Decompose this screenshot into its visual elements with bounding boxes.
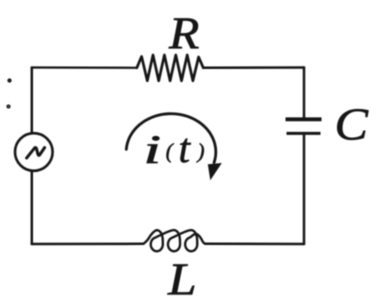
svg-text:i: i <box>143 127 161 172</box>
wire bottom right segment <box>205 243 304 246</box>
scan speck left margin upper <box>9 80 11 82</box>
inductor L coil <box>144 230 206 251</box>
wire left lower <box>31 171 34 244</box>
svg-text:C: C <box>335 99 369 150</box>
svg-text:): ) <box>197 139 205 163</box>
wire right upper <box>303 68 306 118</box>
scan speck left margin lower <box>8 106 10 108</box>
svg-text:R: R <box>168 8 199 59</box>
resistor R zigzag <box>137 55 204 81</box>
current direction arc <box>126 114 215 163</box>
capacitor C bottom plate <box>287 132 321 135</box>
wire bottom left segment <box>32 243 144 246</box>
wire top left segment <box>32 66 137 69</box>
wire top right segment <box>203 66 304 69</box>
arrowhead <box>208 163 222 180</box>
wire left upper <box>31 68 34 134</box>
capacitor C top plate <box>286 117 322 121</box>
svg-text:(: ( <box>166 139 175 163</box>
svg-text:t: t <box>179 125 192 171</box>
wire right lower <box>303 135 306 244</box>
svg-text:L: L <box>167 253 197 305</box>
AC source circle <box>15 133 53 171</box>
AC source sine squiggle <box>27 148 45 158</box>
